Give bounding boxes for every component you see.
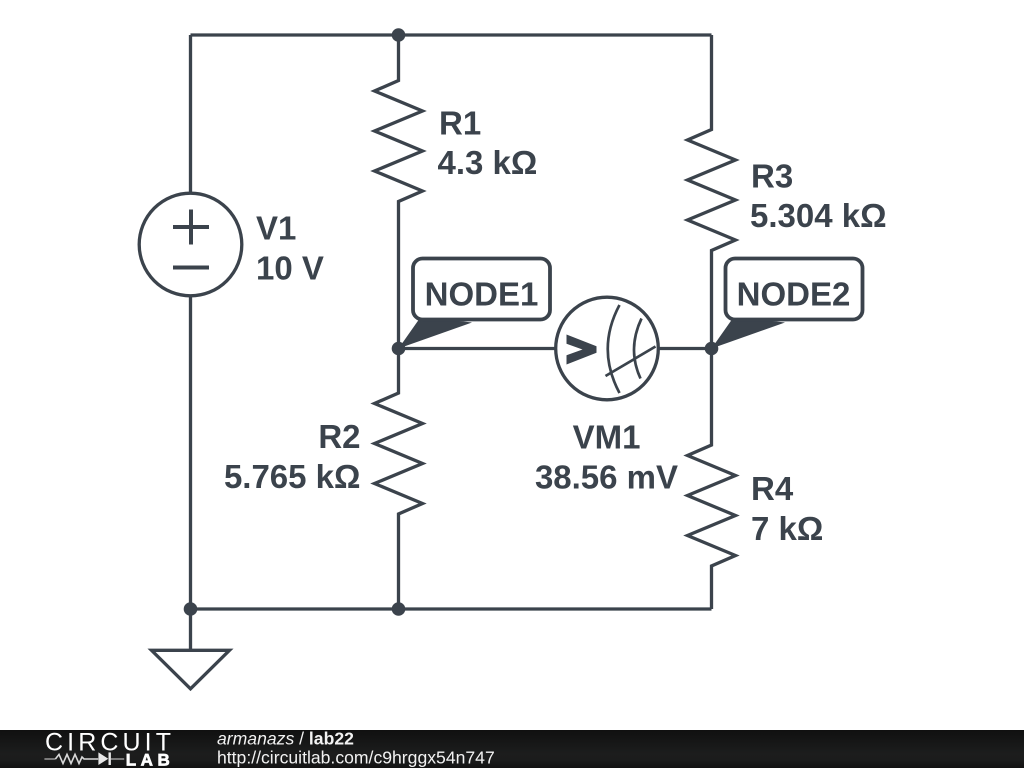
svg-text:10 V: 10 V: [256, 250, 324, 287]
svg-text:NODE2: NODE2: [737, 276, 851, 313]
svg-text:4.3 kΩ: 4.3 kΩ: [438, 144, 538, 181]
svg-text:V1: V1: [256, 210, 296, 247]
svg-text:R1: R1: [439, 105, 481, 142]
svg-text:NODE1: NODE1: [425, 276, 539, 313]
svg-text:armanazs / lab22: armanazs / lab22: [217, 729, 354, 749]
svg-text:38.56 mV: 38.56 mV: [535, 459, 678, 496]
svg-text:VM1: VM1: [573, 419, 641, 456]
svg-text:R4: R4: [751, 470, 794, 507]
svg-text:R3: R3: [751, 158, 793, 195]
svg-text:5.765 kΩ: 5.765 kΩ: [224, 458, 361, 495]
svg-text:LAB: LAB: [126, 750, 175, 768]
svg-text:R2: R2: [318, 418, 360, 455]
svg-text:http://circuitlab.com/c9hrggx5: http://circuitlab.com/c9hrggx54n747: [217, 748, 495, 768]
svg-text:5.304 kΩ: 5.304 kΩ: [750, 197, 887, 234]
svg-text:7 kΩ: 7 kΩ: [751, 510, 823, 547]
